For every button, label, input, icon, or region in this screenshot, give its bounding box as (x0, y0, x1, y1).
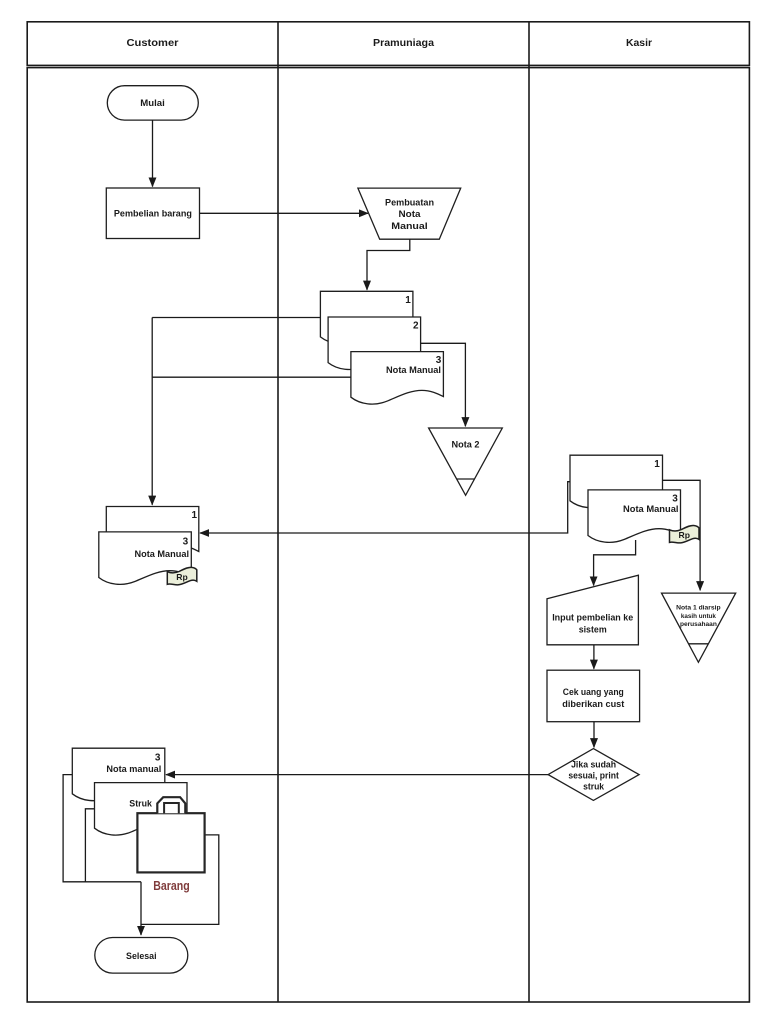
wire Pembelian barang to Pembuatan Nota Manual (200, 212, 369, 214)
svg-text:Rp: Rp (679, 530, 691, 540)
svg-text:3: 3 (155, 752, 161, 763)
wire down into Selesai (140, 882, 142, 935)
svg-text:Nota manual: Nota manual (106, 764, 161, 775)
svg-text:diberikan cust: diberikan cust (562, 699, 625, 710)
wire Pembuatan Nota Manual to document stack (367, 239, 410, 290)
svg-text:Nota Manual: Nota Manual (386, 365, 441, 376)
document Nota 2 (pramuniaga stack middle) (328, 317, 421, 369)
svg-text:Nota Manual: Nota Manual (135, 549, 190, 560)
wire document stack to Nota 2 archive (420, 343, 465, 426)
document customer copy 3 Nota Manual (front) (99, 532, 192, 584)
svg-text:Nota Manual: Nota Manual (623, 504, 679, 515)
svg-text:sistem: sistem (579, 625, 607, 636)
wire Cek uang to decision (593, 722, 595, 748)
wire document stack to customer copy stack (two stubs and vertical) (152, 318, 351, 505)
svg-text:Cek uang yang: Cek uang yang (563, 687, 624, 698)
wire nota manual doc to Selesai (left elbow) (63, 775, 141, 882)
decision Jika sudah sesuai print struk (548, 749, 639, 801)
wire kasir stack to customer copy stack (200, 482, 570, 533)
wire decision to customer receipt stack (166, 774, 548, 776)
archive triangle Nota 1 diarsip (662, 593, 736, 662)
money flag Rp (kasir) (670, 525, 700, 542)
shopping bag handle outer (157, 797, 185, 813)
svg-text:Manual: Manual (391, 221, 428, 231)
shopping bag Barang body (137, 813, 204, 872)
money flag Rp (customer) (167, 567, 197, 584)
document Struk (customer bottom front) (95, 783, 188, 835)
wire struk doc join (85, 809, 94, 882)
terminator Mulai (107, 86, 198, 120)
svg-text:Selesai: Selesai (126, 951, 157, 961)
document Nota manual 3 (customer bottom back) (72, 748, 165, 800)
svg-text:Barang: Barang (153, 879, 190, 893)
svg-text:Pembelian barang: Pembelian barang (114, 209, 192, 219)
shopping bag handle inner (164, 803, 179, 813)
svg-text:Input pembelian ke: Input pembelian ke (552, 613, 633, 624)
svg-text:1: 1 (654, 459, 660, 470)
manual input Input pembelian ke sistem (547, 575, 638, 645)
svg-text:3: 3 (672, 494, 678, 505)
svg-text:3: 3 (183, 536, 189, 547)
wire kasir doc 1 to Nota 1 archive (663, 480, 701, 590)
svg-text:Pramuniaga: Pramuniaga (373, 38, 434, 49)
svg-text:Struk: Struk (129, 799, 152, 810)
svg-text:kasih untuk: kasih untuk (681, 613, 716, 620)
svg-text:1: 1 (191, 510, 197, 521)
document kasir copy 1 (back) (570, 455, 663, 507)
svg-text:Customer: Customer (127, 38, 179, 49)
svg-text:Pembuatan: Pembuatan (385, 198, 434, 208)
wire Input to Cek uang (593, 645, 595, 669)
svg-text:Jika sudah: Jika sudah (571, 760, 616, 770)
svg-text:Kasir: Kasir (626, 38, 652, 49)
svg-text:struk: struk (583, 782, 605, 792)
svg-text:Nota 2: Nota 2 (452, 440, 480, 450)
wire kasir stack to Input pembelian (594, 540, 636, 586)
document kasir copy 3 Nota Manual (front) (588, 490, 681, 542)
wire barang bag join (right elbow) (141, 835, 219, 925)
svg-text:1: 1 (405, 295, 411, 306)
process Cek uang yang diberikan cust (547, 670, 640, 722)
wire Mulai to Pembelian barang (152, 120, 154, 187)
archive triangle Nota 2 (429, 428, 503, 495)
document Nota 1 (pramuniaga stack back) (320, 291, 413, 343)
process Pembelian barang (106, 188, 199, 239)
terminator Selesai (95, 938, 188, 974)
document Nota 3 Nota Manual (pramuniaga stack front) (351, 352, 444, 404)
svg-text:perusahaan: perusahaan (680, 621, 717, 628)
manual operation Pembuatan Nota Manual (358, 188, 461, 239)
svg-text:2: 2 (413, 321, 419, 332)
svg-text:sesuai, print: sesuai, print (568, 771, 619, 781)
svg-text:Rp: Rp (176, 572, 188, 582)
svg-text:Nota: Nota (399, 209, 422, 219)
svg-text:Nota 1 diarsip: Nota 1 diarsip (676, 605, 721, 612)
svg-text:Mulai: Mulai (140, 98, 165, 108)
document customer copy 1 (back) (106, 507, 199, 559)
